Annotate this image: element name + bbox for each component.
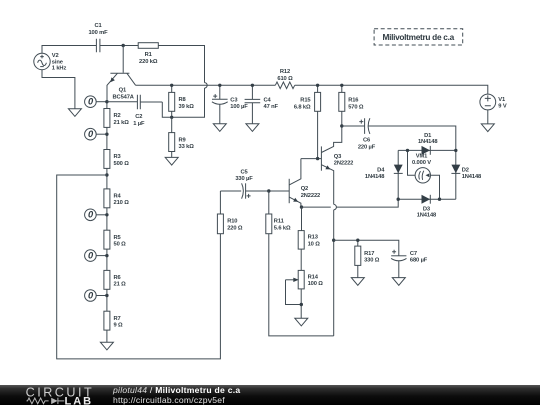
svg-text:9 V: 9 V	[498, 104, 507, 110]
svg-text:C3: C3	[230, 98, 237, 104]
node 0 flag a	[85, 96, 107, 108]
svg-text:Q3: Q3	[334, 154, 341, 160]
svg-text:570 Ω: 570 Ω	[348, 104, 364, 110]
wire base lead Q1	[122, 46, 124, 73]
ground below V2	[68, 109, 81, 117]
capacitor C5	[220, 170, 289, 199]
svg-text:1N4148: 1N4148	[418, 139, 438, 145]
svg-text:R16: R16	[348, 98, 358, 104]
node dot bridge meter top	[406, 149, 409, 152]
resistor R9	[169, 117, 195, 157]
wire R1 right to corner	[158, 46, 204, 83]
resistor R7	[104, 311, 123, 330]
node 0 flag d	[85, 250, 107, 262]
source V2	[34, 53, 67, 71]
source V1	[480, 94, 507, 110]
transistor Q3	[321, 126, 353, 204]
svg-text:R13: R13	[308, 235, 318, 241]
svg-text:R11: R11	[274, 219, 285, 225]
wire Q3 emitter down to R11 loop	[333, 240, 335, 336]
svg-text:sine: sine	[52, 59, 63, 65]
capacitor C3	[212, 85, 248, 123]
transistor Q1	[107, 73, 136, 101]
node dot base junction	[122, 44, 125, 47]
svg-text:6.8 kΩ: 6.8 kΩ	[294, 104, 311, 110]
node dot chain 5	[105, 254, 108, 257]
svg-text:1N4148: 1N4148	[462, 174, 482, 180]
bridge bottom rail	[398, 198, 456, 200]
svg-text:0: 0	[88, 210, 94, 220]
svg-text:R6: R6	[114, 275, 121, 281]
wire emitter to bridge	[302, 206, 331, 208]
svg-text:pilotul44 / Milivoltmetru de c: pilotul44 / Milivoltmetru de c.a	[112, 385, 240, 395]
wire Q2 collector to R15/Q3 base	[301, 158, 322, 160]
svg-text:0: 0	[88, 129, 94, 139]
resistor R15	[294, 85, 321, 158]
ground below R17	[351, 278, 364, 286]
svg-text:680 µF: 680 µF	[410, 258, 428, 264]
resistor R8	[169, 85, 195, 117]
svg-text:0: 0	[88, 251, 94, 261]
svg-text:33 kΩ: 33 kΩ	[179, 144, 195, 150]
node dot bridge meter bottom	[438, 198, 441, 201]
svg-text:C6: C6	[363, 138, 370, 144]
ground below V1	[481, 124, 494, 132]
svg-text:1 kHz: 1 kHz	[52, 66, 67, 72]
wire C1 to R1	[100, 45, 138, 47]
node dot R8 bottom	[170, 116, 173, 119]
svg-text:0: 0	[88, 290, 94, 300]
diode D1	[418, 133, 438, 155]
svg-text:610 Ω: 610 Ω	[277, 76, 293, 82]
wire emitter tap to R17 C7	[334, 240, 399, 256]
node 0 flag e	[85, 290, 107, 302]
feedback loop wire left-bottom	[57, 175, 221, 359]
resistor R10	[217, 191, 243, 234]
svg-text:21 kΩ: 21 kΩ	[114, 120, 130, 126]
svg-text:R15: R15	[300, 98, 311, 104]
ground below C4	[246, 124, 259, 132]
resistor R1	[138, 43, 158, 65]
svg-text:47 nF: 47 nF	[264, 104, 279, 110]
ground below C3	[213, 124, 226, 132]
node dot C6 left	[340, 124, 343, 127]
node dot C4 top	[251, 84, 254, 87]
capacitor C2	[107, 95, 162, 127]
svg-text:330 µF: 330 µF	[235, 176, 253, 182]
resistor R16	[339, 85, 364, 126]
resistor R12 zigzag	[275, 69, 294, 88]
svg-text:1N4148: 1N4148	[417, 213, 437, 219]
svg-text:http://circuitlab.com/czpv5ef: http://circuitlab.com/czpv5ef	[113, 395, 225, 405]
transistor Q2	[289, 159, 320, 208]
node dot bridge bottom left	[397, 198, 400, 201]
svg-text:D1: D1	[424, 133, 432, 139]
svg-text:10 Ω: 10 Ω	[308, 241, 321, 247]
svg-text:R3: R3	[114, 154, 121, 160]
svg-text:Q1: Q1	[119, 88, 127, 94]
ground below R14	[295, 318, 308, 326]
voltmeter VM1	[408, 150, 440, 199]
svg-text:0: 0	[88, 97, 94, 107]
svg-text:V1: V1	[498, 97, 506, 103]
capacitor C7	[391, 250, 428, 278]
diode D4	[365, 165, 403, 180]
svg-text:R4: R4	[114, 194, 122, 200]
bridge top rail	[398, 149, 456, 151]
wire V2 top to C1	[42, 46, 96, 54]
wire corner down to R8 bottom junction	[162, 88, 204, 117]
node dot R17 top	[356, 239, 359, 242]
svg-text:C1: C1	[94, 23, 102, 29]
svg-text:D2: D2	[462, 168, 469, 174]
logo zigzag diode glyph	[27, 398, 65, 404]
node dot R15 bottom	[316, 157, 319, 160]
svg-text:220 Ω: 220 Ω	[227, 225, 243, 231]
title box	[374, 29, 463, 45]
node dot R16 top	[340, 84, 343, 87]
svg-text:21 Ω: 21 Ω	[114, 282, 127, 288]
svg-text:R1: R1	[145, 52, 153, 58]
wire Q3 emitter segment	[333, 210, 335, 240]
svg-text:D4: D4	[377, 168, 385, 174]
resistor R17	[355, 240, 380, 277]
svg-text:R10: R10	[227, 219, 237, 225]
svg-text:0.000 V: 0.000 V	[412, 160, 431, 166]
svg-text:D3: D3	[423, 206, 430, 212]
resistor R11	[266, 191, 334, 336]
node dot R11 top	[267, 189, 270, 192]
node 0 flag c	[85, 209, 107, 221]
node dot Q2 emitter	[300, 205, 303, 208]
ground below C7	[392, 278, 405, 286]
node dot bridge top right	[454, 149, 457, 152]
svg-text:V2: V2	[52, 53, 59, 59]
svg-text:R12: R12	[280, 69, 290, 75]
svg-text:2N2222: 2N2222	[301, 193, 320, 199]
node dot R8 top	[170, 84, 173, 87]
resistor R4	[104, 189, 129, 208]
wire V1 bottom	[487, 110, 489, 124]
svg-text:500 Ω: 500 Ω	[114, 161, 130, 167]
node dot R14 bottom	[300, 303, 303, 306]
node dot chain 1	[105, 100, 108, 103]
node 0 flag b	[85, 128, 107, 140]
svg-text:R5: R5	[114, 235, 122, 241]
bridge right rail	[455, 150, 457, 199]
capacitor C6	[342, 118, 456, 150]
svg-text:C5: C5	[240, 170, 248, 176]
svg-text:VM1: VM1	[416, 154, 428, 160]
diode D2	[451, 165, 482, 180]
svg-text:330 Ω: 330 Ω	[364, 258, 380, 264]
resistor R6	[104, 270, 126, 289]
rail after R12 to V1	[295, 85, 488, 94]
capacitor C4	[245, 85, 279, 123]
svg-text:Milivoltmetru de c.a: Milivoltmetru de c.a	[382, 32, 454, 42]
rail collector y85	[136, 84, 276, 86]
resistor R3	[104, 150, 129, 169]
node dot Q3 emitter tap	[332, 239, 335, 242]
node dot chain 6	[105, 294, 108, 297]
svg-text:C4: C4	[264, 98, 272, 104]
svg-text:50 Ω: 50 Ω	[114, 242, 127, 248]
svg-text:2N2222: 2N2222	[334, 161, 353, 167]
svg-text:R17: R17	[364, 251, 374, 257]
wire V2 bottom to ground	[42, 70, 75, 109]
ground below R7	[100, 342, 113, 350]
svg-text:39 kΩ: 39 kΩ	[179, 104, 195, 110]
svg-text:100 µF: 100 µF	[230, 104, 248, 110]
node dot chain 3 feedback tap	[105, 173, 108, 176]
svg-text:220 µF: 220 µF	[358, 144, 376, 150]
resistor R13	[298, 207, 320, 270]
node dot R15 top	[316, 84, 319, 87]
potentiometer R14	[286, 270, 324, 318]
node dot chain 4	[105, 213, 108, 216]
svg-text:100 mF: 100 mF	[88, 30, 108, 36]
svg-text:R2: R2	[114, 113, 121, 119]
svg-text:LAB: LAB	[65, 396, 94, 405]
svg-text:1 µF: 1 µF	[133, 121, 145, 127]
resistor R2	[104, 109, 129, 128]
bridge left rail	[397, 150, 399, 199]
svg-text:BC547A: BC547A	[113, 94, 134, 100]
svg-text:100 Ω: 100 Ω	[308, 281, 324, 287]
svg-text:R7: R7	[114, 316, 121, 322]
svg-text:9 Ω: 9 Ω	[114, 323, 124, 329]
svg-text:C7: C7	[410, 251, 417, 257]
wire to bridge bottom left	[337, 199, 399, 207]
svg-text:Q2: Q2	[301, 186, 308, 192]
ground below R9	[165, 157, 178, 165]
node dot chain 2	[105, 133, 108, 136]
svg-text:5.6 kΩ: 5.6 kΩ	[274, 225, 291, 231]
svg-text:R8: R8	[179, 97, 187, 103]
wire hop over rail	[205, 83, 208, 88]
diode D3	[417, 195, 437, 219]
wire hop Q3 emitter over	[334, 204, 337, 209]
svg-text:R9: R9	[179, 137, 186, 143]
svg-text:1N4148: 1N4148	[365, 174, 385, 180]
node dot C3 top	[218, 84, 221, 87]
svg-text:210 Ω: 210 Ω	[114, 200, 130, 206]
svg-text:C2: C2	[135, 114, 142, 120]
capacitor C1	[88, 23, 108, 52]
svg-text:R14: R14	[308, 274, 319, 280]
left divider chain vertical wire	[106, 102, 108, 343]
resistor R5	[104, 230, 126, 249]
svg-text:220 kΩ: 220 kΩ	[139, 59, 158, 65]
